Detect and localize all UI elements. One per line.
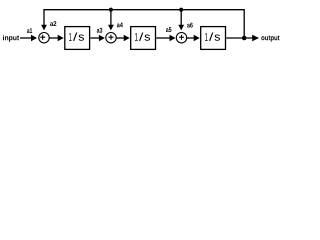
wire integrator U2 to summer S3	[156, 35, 175, 41]
value label a2	[50, 21, 56, 26]
junction node J1 output takeoff	[242, 36, 247, 41]
wire integrator U1 to summer S2	[90, 35, 105, 41]
summer S3	[176, 33, 186, 43]
junction node J2 on top feedback line	[109, 8, 113, 12]
integrator U2 1/s	[131, 27, 156, 50]
wire summer S1 to integrator U1	[50, 35, 64, 41]
wire summer S3 to integrator U3	[187, 35, 200, 41]
wire feedback from node J1 up and across top	[44, 10, 244, 38]
summer S2	[106, 33, 116, 43]
value label a1	[27, 28, 32, 33]
value label a6	[187, 23, 193, 28]
summer S1	[39, 33, 49, 43]
junction node J3 on top feedback line	[179, 8, 183, 12]
wire feedback drop a4 into summer S2	[108, 10, 114, 31]
integrator U3 1/s	[201, 27, 226, 50]
node input label	[3, 35, 19, 42]
wire integrator U3 to output	[226, 35, 259, 42]
integrator U1 1/s	[65, 27, 90, 50]
wire feedback arrowhead a2 into summer S1	[41, 25, 47, 31]
wire input to summer S1	[20, 35, 37, 41]
value label a5	[166, 27, 172, 32]
wire feedback drop a6 into summer S3	[178, 10, 184, 31]
node output label	[261, 35, 279, 41]
wire summer S2 to integrator U2	[117, 35, 130, 41]
value label a3	[97, 28, 103, 33]
value label a4	[117, 22, 123, 27]
